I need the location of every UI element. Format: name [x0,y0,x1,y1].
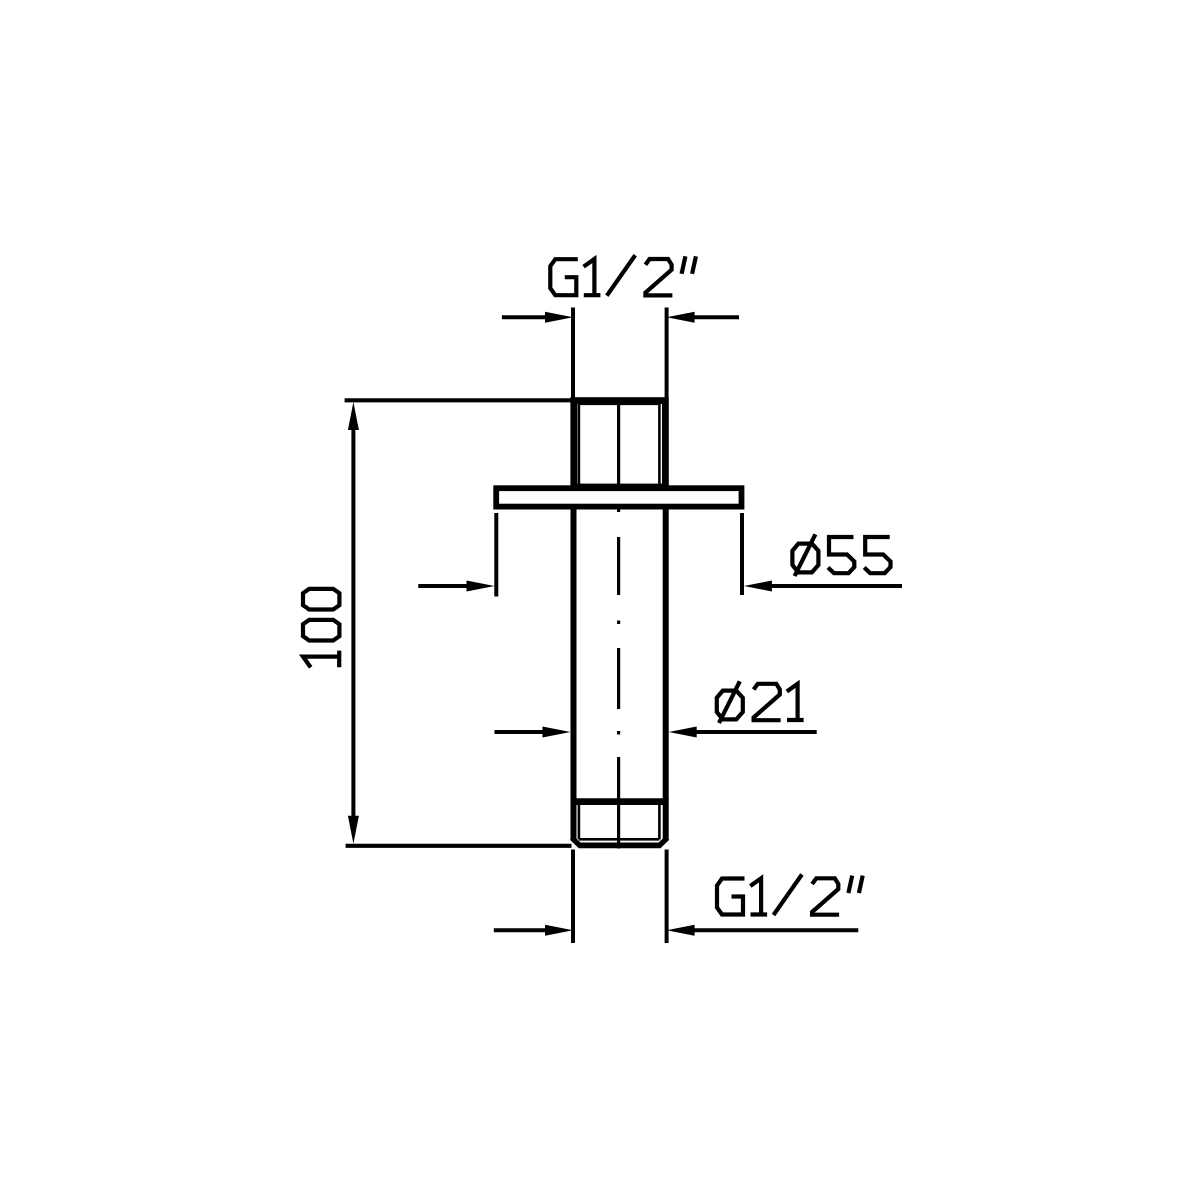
dia21 dimension line left with arrow [495,727,571,738]
dia55 extension line left (below flange left edge) [494,513,498,597]
bottom thread minor-diameter thin lines [579,805,660,839]
dia21 dimension line right with arrow [669,727,817,738]
label dia21 [717,681,804,723]
top dimension line left with arrow [502,312,573,323]
100 vertical dimension line with arrows [348,402,359,844]
bottom dimension extension line right [665,850,669,944]
bottom thread top band [571,798,669,805]
bottom thread left chamfer [572,838,581,846]
top dimension extension line left [571,308,575,398]
bottom thread bottom edge [579,843,661,849]
label G1/2" top [550,255,696,296]
bottom dimension line left with arrow [494,925,573,936]
dia55 extension line right (below flange right edge) [740,513,744,595]
dia55 dimension line left with arrow [418,581,494,592]
bottom thread left wall [571,798,577,840]
100 dimension top extension line [345,398,572,402]
flange (escutcheon plate) [496,488,741,506]
bottom thread right wall [663,798,669,840]
bottom dimension line right with arrow [667,925,859,936]
label 100 (rotated) [303,589,339,668]
100 dimension bottom extension line [346,844,572,848]
top thread minor-diameter thin lines [579,404,660,486]
bottom thread right chamfer [659,838,668,846]
label dia55 [792,534,890,576]
pipe right wall [663,507,669,802]
top dimension line right with arrow [667,312,739,323]
dia55 dimension line right with arrow [744,581,902,592]
center line (dash-dot) [617,401,620,849]
bottom dimension extension line left [571,850,575,944]
pipe left wall [571,507,577,802]
top dimension extension line right [665,308,669,398]
top thread body outline [574,401,666,487]
label G1/2" bottom [717,875,863,916]
